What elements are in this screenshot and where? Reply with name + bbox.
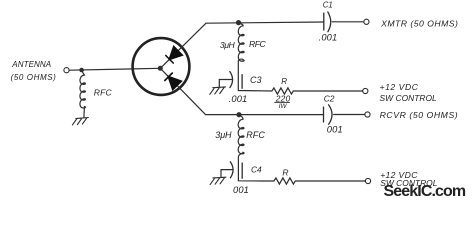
diode D2 (RCVR side) [165, 73, 181, 89]
terminal +12 VDC (lower) [365, 178, 370, 183]
inductor RFC3 [238, 115, 244, 156]
antenna terminal [64, 68, 69, 73]
svg-text:ANTENNA: ANTENNA [11, 60, 51, 69]
wire XMTR rail [206, 22, 324, 23]
node antenna junction [79, 68, 84, 73]
svg-text:R: R [282, 167, 288, 177]
svg-text:C4: C4 [251, 164, 262, 174]
terminal XMTR [364, 19, 369, 24]
wire C3 to ground [219, 80, 232, 87]
svg-text:RFC: RFC [94, 88, 113, 98]
wire C1 to XMTR terminal [332, 21, 364, 23]
label 220 underline [274, 101, 290, 103]
ground G3 [210, 177, 226, 184]
svg-text:3μH: 3μH [220, 40, 236, 50]
svg-text:RFC: RFC [246, 130, 265, 140]
inductor RFC2 [238, 23, 244, 61]
svg-text:C1: C1 [323, 1, 333, 10]
capacitor C4 [230, 162, 242, 179]
terminal RCVR [365, 112, 370, 117]
svg-text:3μH: 3μH [215, 130, 232, 140]
wire RFC3 to C4/R junction [238, 158, 262, 182]
node diode common [158, 66, 163, 71]
wire C4 to ground [221, 170, 233, 177]
svg-text:001: 001 [327, 125, 343, 135]
svg-text:C3: C3 [250, 75, 262, 85]
capacitor C2 [324, 105, 333, 125]
wire diagonal to XMTR rail [160, 23, 206, 68]
wire diagonal to RCVR rail [160, 68, 205, 114]
wire antenna to diode circle center [69, 68, 160, 70]
svg-text:C2: C2 [324, 93, 335, 103]
diode D1 (XMTR side) [166, 47, 182, 63]
resistor R2 [262, 178, 365, 184]
ground G2 [210, 87, 226, 94]
svg-text:.001: .001 [229, 94, 248, 104]
svg-text:(50 OHMS): (50 OHMS) [11, 73, 57, 82]
svg-text:SW CONTROL: SW CONTROL [380, 93, 438, 103]
capacitor C3 [230, 72, 242, 89]
svg-text:.001: .001 [319, 32, 338, 42]
svg-text:RFC: RFC [249, 39, 266, 49]
svg-text:+12 VDC: +12 VDC [380, 82, 419, 92]
capacitor C1 [324, 12, 331, 32]
svg-text:220: 220 [275, 93, 291, 103]
inductor RFC1 [80, 71, 85, 118]
svg-text:IW: IW [279, 103, 288, 110]
svg-text:001: 001 [233, 185, 249, 195]
resistor R1 (220 1W) [260, 88, 363, 94]
wire C2 to RCVR terminal [334, 114, 365, 116]
diode circle D1/D2 envelope [133, 38, 190, 95]
svg-text:RCVR (50 OHMS): RCVR (50 OHMS) [380, 110, 459, 120]
node rail/RFC3 junction [236, 112, 241, 117]
svg-text:XMTR (50 OHMS): XMTR (50 OHMS) [380, 18, 458, 28]
svg-text:R: R [281, 77, 287, 86]
svg-text:SeekIC.com: SeekIC.com [384, 183, 466, 200]
node rail/RFC2 junction [236, 20, 241, 25]
ground G1 [72, 118, 88, 125]
wire RCVR rail [206, 114, 324, 116]
terminal +12 VDC (upper) [363, 88, 368, 93]
wire RFC2 to C3/R junction [238, 62, 260, 91]
